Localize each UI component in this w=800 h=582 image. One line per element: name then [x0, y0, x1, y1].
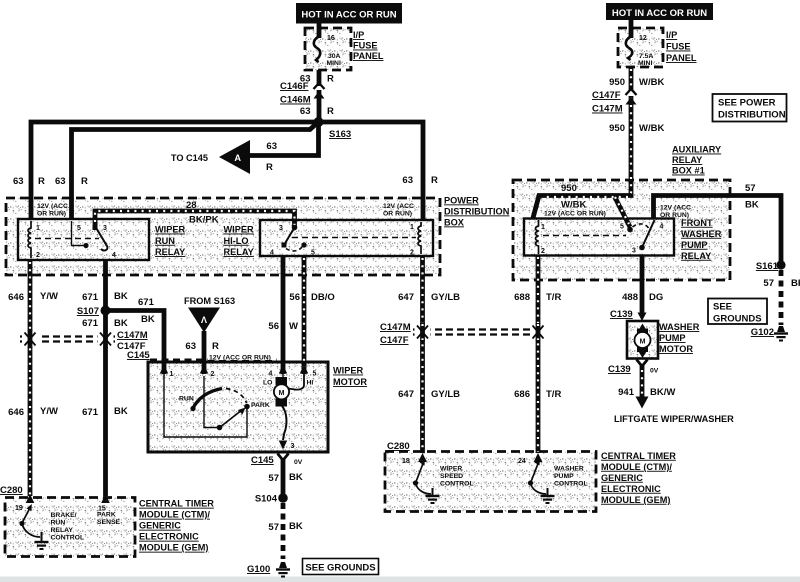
- svg-text:OR RUN): OR RUN): [37, 211, 66, 218]
- connector C146F/C146M: [314, 86, 323, 90]
- svg-text:CONTROL: CONTROL: [554, 481, 588, 488]
- svg-text:LIFTGATE WIPER/WASHER: LIFTGATE WIPER/WASHER: [614, 414, 734, 424]
- R1 mech dashed link: [35, 238, 99, 240]
- svg-text:R: R: [81, 176, 88, 187]
- svg-text:12V (ACC OR RUN): 12V (ACC OR RUN): [544, 211, 606, 218]
- wire S163 down to C145 arrow: [250, 122, 319, 156]
- svg-text:WIPER: WIPER: [440, 466, 462, 473]
- svg-text:CENTRAL TIMER: CENTRAL TIMER: [139, 499, 214, 509]
- svg-text:56: 56: [268, 321, 279, 332]
- auxiliary relay box outline: [513, 180, 730, 280]
- svg-text:FRONT: FRONT: [681, 218, 713, 228]
- svg-text:RUN: RUN: [155, 236, 175, 246]
- wire 950 W/BK fuse to aux box: [629, 67, 634, 197]
- svg-text:688: 688: [514, 292, 530, 303]
- wire 671 BK S107 branch to wiper motor pin1: [106, 311, 165, 375]
- svg-text:3: 3: [632, 248, 636, 255]
- svg-text:HOT IN ACC OR RUN: HOT IN ACC OR RUN: [612, 8, 707, 19]
- svg-text:SEE GROUNDS: SEE GROUNDS: [305, 563, 375, 574]
- svg-text:S163: S163: [329, 129, 351, 140]
- svg-text:FROM S163: FROM S163: [184, 296, 235, 306]
- svg-text:SENSE: SENSE: [97, 519, 121, 526]
- svg-text:18: 18: [402, 458, 410, 465]
- svg-text:RELAY: RELAY: [672, 155, 702, 165]
- svg-text:C280: C280: [0, 485, 23, 496]
- svg-text:M: M: [279, 390, 285, 397]
- svg-text:SEE: SEE: [713, 302, 732, 313]
- CTM2 entry arrow pin24: [534, 453, 543, 462]
- central timer module box left: [5, 498, 135, 557]
- svg-text:C139: C139: [608, 364, 631, 375]
- svg-text:2: 2: [211, 371, 215, 378]
- R3 mech dashed link: [543, 235, 626, 237]
- svg-text:WIPER: WIPER: [155, 225, 185, 235]
- svg-text:HI: HI: [307, 380, 314, 387]
- svg-text:12V (ACC: 12V (ACC: [383, 203, 414, 210]
- svg-text:PARK: PARK: [97, 512, 116, 519]
- wire 57 BK S104 to G100: [281, 503, 286, 559]
- svg-text:A: A: [234, 153, 241, 163]
- fuse panel box left: [305, 28, 351, 70]
- svg-text:3: 3: [103, 225, 107, 232]
- svg-text:RELAY: RELAY: [224, 247, 254, 257]
- wiper run relay R1 internals: [28, 221, 116, 259]
- svg-text:DISTRIBUTION: DISTRIBUTION: [444, 206, 510, 216]
- svg-text:647: 647: [398, 292, 414, 303]
- svg-text:MINI: MINI: [327, 60, 341, 67]
- svg-text:MINI: MINI: [638, 60, 652, 67]
- svg-text:16: 16: [327, 35, 335, 42]
- fuse F (7.5A MINI): [626, 36, 632, 60]
- central timer module box middle: [385, 452, 596, 512]
- washer pump motor internals: [635, 324, 651, 359]
- svg-text:Y/W: Y/W: [40, 406, 58, 417]
- wire S163 right to wiper hi-lo relay pin 1: [319, 122, 424, 220]
- CTM2 entry arrow pin18: [418, 453, 427, 462]
- wire 57 BK S161 to G102: [779, 270, 784, 325]
- svg-text:28: 28: [186, 200, 197, 211]
- svg-text:12V (ACC: 12V (ACC: [37, 203, 68, 210]
- svg-text:12: 12: [639, 35, 647, 42]
- motor park switch: [164, 376, 270, 437]
- svg-text:63: 63: [13, 176, 24, 187]
- R2 pin3 junction: [292, 225, 298, 231]
- svg-text:1: 1: [36, 225, 40, 232]
- svg-text:RUN: RUN: [51, 520, 66, 527]
- svg-text:C147M: C147M: [592, 104, 623, 115]
- svg-text:RELAY: RELAY: [155, 247, 185, 257]
- svg-text:671: 671: [138, 297, 155, 308]
- svg-text:1: 1: [541, 224, 545, 231]
- svg-text:TO C145: TO C145: [171, 153, 208, 163]
- svg-text:WASHER: WASHER: [659, 322, 700, 332]
- front washer pump relay body: [524, 219, 674, 256]
- svg-text:RELAY: RELAY: [51, 527, 74, 534]
- svg-text:MODULE (CTM)/: MODULE (CTM)/: [139, 510, 210, 520]
- motor M armature: [274, 373, 304, 407]
- svg-text:LO: LO: [263, 380, 272, 387]
- svg-text:5: 5: [620, 224, 624, 231]
- svg-text:BK/W: BK/W: [650, 387, 675, 398]
- svg-text:950: 950: [609, 123, 625, 134]
- svg-text:57: 57: [268, 473, 279, 484]
- R1 pin5 contact: [72, 221, 85, 246]
- svg-text:G102: G102: [751, 327, 774, 338]
- svg-text:24: 24: [518, 458, 526, 465]
- svg-text:C147F: C147F: [592, 90, 621, 101]
- svg-text:GY/LB: GY/LB: [431, 389, 460, 400]
- svg-text:646: 646: [8, 407, 24, 418]
- svg-text:2: 2: [541, 248, 545, 255]
- svg-text:BK: BK: [141, 314, 155, 325]
- front washer pump relay R3 internals: [536, 220, 664, 255]
- svg-text:BK: BK: [791, 278, 800, 289]
- svg-text:R: R: [38, 176, 45, 187]
- svg-text:Y/W: Y/W: [40, 291, 58, 302]
- svg-text:57: 57: [745, 183, 756, 194]
- svg-text:T/R: T/R: [546, 292, 561, 303]
- svg-text:PUMP: PUMP: [554, 473, 574, 480]
- svg-text:1: 1: [410, 224, 414, 231]
- svg-text:BK: BK: [289, 472, 303, 483]
- R3 throw arc: [633, 224, 649, 228]
- svg-text:BK: BK: [289, 521, 303, 532]
- svg-text:488: 488: [622, 292, 638, 303]
- svg-text:Λ: Λ: [201, 315, 208, 325]
- svg-text:S161: S161: [756, 261, 779, 272]
- wire 647 GY/LB relay2 pin2 to CTM2: [420, 256, 425, 453]
- svg-text:19: 19: [15, 505, 23, 512]
- R3 switch arm: [642, 220, 655, 248]
- FROM S163 arrow A: [184, 296, 235, 333]
- svg-text:R: R: [327, 106, 334, 117]
- ground G102: [774, 326, 788, 341]
- svg-text:3: 3: [291, 443, 295, 450]
- svg-text:BRAKE/: BRAKE/: [51, 512, 77, 519]
- wire S163 branch to wiper run relay pin 5: [72, 124, 317, 220]
- svg-text:C147M: C147M: [380, 322, 411, 333]
- svg-text:C139: C139: [610, 309, 633, 320]
- wire fuse feed: [317, 23, 322, 38]
- svg-text:950: 950: [561, 183, 577, 194]
- svg-text:950: 950: [609, 77, 625, 88]
- fuse panel box right: [618, 28, 663, 67]
- svg-text:SPEED: SPEED: [440, 473, 463, 480]
- svg-text:RELAY: RELAY: [681, 251, 711, 261]
- svg-text:BK: BK: [114, 291, 128, 302]
- wire 56 DB/O relay2 pin5 to motor pin5: [302, 256, 307, 374]
- svg-text:R: R: [431, 175, 438, 186]
- svg-text:SEE POWER: SEE POWER: [718, 98, 776, 109]
- motor pin 2: [200, 365, 208, 374]
- svg-text:GY/LB: GY/LB: [431, 292, 460, 303]
- svg-text:63: 63: [185, 341, 196, 352]
- svg-text:CONTROL: CONTROL: [51, 535, 85, 542]
- svg-text:12V (ACC OR RUN): 12V (ACC OR RUN): [209, 355, 271, 362]
- svg-text:MOTOR: MOTOR: [659, 344, 693, 354]
- svg-text:W/BK: W/BK: [561, 200, 586, 211]
- svg-text:MODULE (GEM): MODULE (GEM): [139, 543, 208, 553]
- motor pin 1: [160, 365, 168, 374]
- hot-in-acc-or-run banner (right): [606, 3, 713, 20]
- svg-text:56: 56: [289, 292, 300, 303]
- motor pin 5: [300, 365, 308, 374]
- wire 57 BK relay3 pin4 to S161: [654, 196, 782, 263]
- svg-text:63: 63: [300, 106, 311, 117]
- svg-text:RUN: RUN: [179, 396, 194, 403]
- svg-text:GROUNDS: GROUNDS: [713, 314, 762, 325]
- svg-text:R: R: [212, 341, 219, 352]
- svg-text:C145: C145: [127, 350, 150, 361]
- svg-text:I/P: I/P: [353, 30, 364, 40]
- svg-text:671: 671: [82, 318, 99, 329]
- svg-text:OR RUN): OR RUN): [383, 211, 412, 218]
- svg-text:57: 57: [268, 522, 279, 533]
- svg-text:PARK: PARK: [251, 402, 270, 409]
- svg-text:0V: 0V: [294, 459, 303, 466]
- motor pin 4: [279, 365, 287, 374]
- svg-text:686: 686: [514, 389, 530, 400]
- see power distribution box: [713, 94, 787, 122]
- svg-text:0V: 0V: [650, 368, 659, 375]
- wire 941 BK/W: [640, 364, 645, 398]
- svg-text:W/BK: W/BK: [639, 123, 664, 134]
- CTM entry arrow pin19: [26, 494, 35, 503]
- R2 throw arc: [286, 247, 302, 251]
- svg-text:ELECTRONIC: ELECTRONIC: [139, 532, 199, 542]
- svg-text:GENERIC: GENERIC: [601, 473, 643, 483]
- svg-text:AUXILIARY: AUXILIARY: [672, 145, 721, 155]
- svg-text:PUMP: PUMP: [659, 333, 686, 343]
- svg-text:MODULE (CTM)/: MODULE (CTM)/: [601, 462, 672, 472]
- 12V dashed line at motor top: [150, 359, 277, 361]
- svg-text:POWER: POWER: [444, 195, 479, 205]
- svg-text:HOT IN ACC OR RUN: HOT IN ACC OR RUN: [301, 10, 396, 21]
- wiper run relay body: [18, 219, 149, 260]
- svg-text:4: 4: [270, 250, 274, 257]
- wire fuse feed right: [629, 20, 634, 38]
- svg-text:BOX: BOX: [444, 217, 465, 227]
- svg-text:M: M: [640, 339, 646, 346]
- R1 coil: [28, 221, 31, 258]
- svg-text:BK: BK: [745, 200, 759, 211]
- wire 688 T/R relay3 pin2 to CTM2: [536, 255, 541, 453]
- svg-text:671: 671: [82, 407, 99, 418]
- svg-text:C146F: C146F: [280, 81, 309, 92]
- svg-text:646: 646: [8, 292, 24, 303]
- svg-text:DG: DG: [649, 292, 663, 303]
- svg-text:7.5A: 7.5A: [639, 53, 653, 60]
- svg-text:BK: BK: [114, 406, 128, 417]
- wire 671 BK relay1 pin4 down to CTM: [103, 260, 108, 496]
- connector C147F/C147M (right riser): [626, 92, 635, 96]
- svg-text:647: 647: [398, 389, 414, 400]
- svg-text:CONTROL: CONTROL: [440, 481, 474, 488]
- svg-text:C280: C280: [387, 441, 410, 452]
- connector C147M/C147F (middle pair): [413, 323, 546, 341]
- svg-text:R: R: [266, 162, 273, 173]
- svg-text:5: 5: [77, 225, 81, 232]
- splice S161: [776, 260, 785, 269]
- svg-text:BK/PK: BK/PK: [189, 215, 219, 226]
- R3 coil: [536, 220, 539, 254]
- wire 28 BK/PK R1 pin3 to R2 pin3: [95, 211, 295, 227]
- wire S163 left to wiper run relay pin 1: [31, 122, 319, 220]
- hot-in-acc-or-run banner (left): [296, 3, 402, 24]
- svg-text:PANEL: PANEL: [353, 51, 384, 61]
- svg-text:W/BK: W/BK: [639, 77, 664, 88]
- svg-text:63: 63: [55, 176, 66, 187]
- svg-text:DB/O: DB/O: [311, 292, 335, 303]
- svg-text:W: W: [289, 321, 298, 332]
- svg-text:PANEL: PANEL: [666, 53, 697, 63]
- CTM2 wiper speed control switch: [413, 459, 440, 503]
- R3 pin5 contact: [627, 227, 633, 233]
- svg-text:S104: S104: [255, 494, 278, 505]
- svg-text:2: 2: [36, 252, 40, 259]
- CTM2 washer pump control switch: [528, 459, 555, 503]
- svg-text:941: 941: [618, 387, 635, 398]
- svg-text:63: 63: [266, 141, 277, 152]
- fuse F (30A MINI): [314, 36, 320, 62]
- CTM entry arrow pin15: [101, 494, 110, 503]
- svg-text:I/P: I/P: [666, 30, 677, 40]
- svg-text:MOTOR: MOTOR: [333, 377, 367, 387]
- svg-text:FUSE: FUSE: [666, 42, 691, 52]
- svg-text:4: 4: [269, 371, 273, 378]
- connector C147M/C147F (left pair): [20, 330, 115, 348]
- liftgate arrow: [636, 397, 649, 409]
- svg-text:WASHER: WASHER: [681, 229, 722, 239]
- svg-text:T/R: T/R: [546, 389, 561, 400]
- svg-text:12V (ACC: 12V (ACC: [660, 205, 691, 212]
- splice S163: [314, 117, 324, 127]
- wire 63 R fuse to S163: [317, 70, 322, 122]
- R2 coil: [418, 222, 421, 254]
- svg-text:63: 63: [402, 175, 413, 186]
- splice S104: [278, 493, 288, 503]
- svg-text:R: R: [327, 74, 334, 85]
- svg-text:5: 5: [313, 371, 317, 378]
- svg-text:WIPER: WIPER: [333, 366, 363, 376]
- svg-text:WASHER: WASHER: [554, 466, 584, 473]
- wire 56 W relay2 pin4 to motor pin4: [281, 256, 286, 374]
- svg-text:G100: G100: [247, 564, 270, 575]
- R2 switch arm: [284, 228, 295, 246]
- svg-text:DISTRIBUTION: DISTRIBUTION: [718, 110, 786, 121]
- svg-text:MODULE (GEM): MODULE (GEM): [601, 495, 670, 505]
- svg-text:57: 57: [763, 278, 774, 289]
- wiper hi-lo relay body: [260, 220, 433, 256]
- wire 950 branch inside aux box: [533, 194, 631, 227]
- svg-text:C147M: C147M: [117, 330, 148, 341]
- svg-text:1: 1: [170, 371, 174, 378]
- svg-text:4: 4: [112, 252, 116, 259]
- motor pin 3 wire: [282, 406, 286, 440]
- wire 646 Y/W relay1 pin2 down to CTM: [28, 260, 33, 496]
- ground G100: [276, 562, 290, 577]
- see grounds box (right): [708, 299, 767, 325]
- svg-text:BK: BK: [114, 318, 128, 329]
- see grounds box (bottom): [303, 559, 379, 575]
- svg-text:C146M: C146M: [280, 95, 311, 106]
- splice S107: [101, 306, 111, 316]
- svg-text:2: 2: [410, 250, 414, 257]
- svg-text:30A: 30A: [328, 53, 341, 60]
- svg-text:C147F: C147F: [380, 335, 409, 346]
- TO C145 arrow A: [171, 140, 250, 174]
- svg-text:WIPER: WIPER: [224, 225, 254, 235]
- CTM brake/run relay control switch: [19, 504, 48, 549]
- svg-text:5: 5: [311, 250, 315, 257]
- R2 mech dashed link: [292, 237, 416, 239]
- svg-text:3: 3: [279, 225, 283, 232]
- svg-text:PUMP: PUMP: [681, 240, 708, 250]
- svg-text:S107: S107: [77, 306, 99, 317]
- wire 57 BK motor to S104: [281, 458, 286, 496]
- wire 63 R from arrow to motor pin2: [202, 331, 207, 374]
- svg-text:671: 671: [82, 292, 99, 303]
- washer pump motor body: [627, 321, 658, 359]
- svg-text:ELECTRONIC: ELECTRONIC: [601, 484, 661, 494]
- wiper motor box body: [148, 362, 328, 452]
- R1 switch arm: [95, 226, 107, 250]
- power distribution box outline: [6, 198, 440, 275]
- wiper hi-lo relay R2 internals: [270, 222, 421, 257]
- svg-text:4: 4: [660, 224, 664, 231]
- svg-text:HI-LO: HI-LO: [224, 236, 249, 246]
- svg-text:GENERIC: GENERIC: [139, 521, 181, 531]
- svg-text:CENTRAL TIMER: CENTRAL TIMER: [601, 451, 676, 461]
- bottom page bar: [0, 577, 800, 582]
- svg-text:FUSE: FUSE: [353, 41, 378, 51]
- wire 488 DG relay3 pin3 to washer pump: [640, 255, 645, 313]
- svg-text:C145: C145: [251, 455, 274, 466]
- svg-text:BOX #1: BOX #1: [672, 166, 705, 176]
